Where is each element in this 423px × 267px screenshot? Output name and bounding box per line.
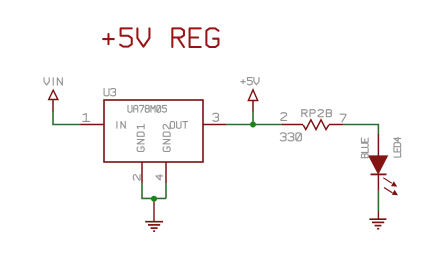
pin number 2 (resistor) [281, 113, 287, 121]
LED4 cathode pin [377, 174, 379, 190]
value label BLUE (rotated) [361, 138, 368, 158]
resistor RP2B pin 2 lead [282, 124, 303, 126]
value label 330 [280, 133, 301, 141]
net label +5V [241, 78, 259, 85]
supply symbol VIN [49, 90, 58, 99]
pin 1 of U3 (IN) [81, 124, 105, 126]
wire LED to ground [377, 190, 379, 211]
wire pin4 to junction [165, 183, 167, 198]
pin number 3 [213, 113, 219, 121]
value label UA78M05 [128, 105, 166, 112]
resistor RP2B zigzag [303, 120, 329, 130]
ground symbol GND (right) bars [369, 219, 386, 229]
wire junction to +5V supply [252, 111, 254, 125]
pin 2 of U3 (GND1) [141, 162, 143, 183]
IC U3 body [104, 100, 203, 162]
LED4 anode pin [377, 134, 379, 157]
pin name GND1 (rotated) [137, 125, 144, 152]
junction dot (GND net) [151, 196, 157, 202]
wire OUT to resistor [226, 124, 282, 126]
supply symbol +5V [248, 90, 257, 101]
pin number 1 [83, 114, 90, 122]
ref label U3 [104, 89, 115, 96]
pin name IN [117, 122, 125, 129]
wire resistor to LED [343, 125, 378, 135]
LED4 triangle [369, 156, 387, 174]
LED4 cathode bar [371, 173, 387, 175]
title text +5V REG [103, 28, 218, 47]
ground symbol GND (left) bars [145, 222, 163, 231]
pin 3 of U3 (OUT) [203, 124, 226, 126]
ground symbol GND (left) pin [153, 198, 155, 221]
wire VIN to pin1 [53, 111, 81, 125]
resistor RP2B pin 7 lead [329, 124, 343, 126]
net label VIN [44, 78, 62, 85]
wire pin2 to junction [142, 183, 166, 198]
pin number 2 (rotated) [133, 175, 140, 180]
junction dot (+5V net) [250, 122, 256, 128]
ground symbol GND (right) pin [377, 211, 379, 219]
LED4 light arrow 1 [383, 178, 392, 183]
ref label RP2B [302, 110, 332, 117]
pin name OUT [170, 122, 187, 129]
pin 4 of U3 (GND2) [165, 162, 167, 183]
pin number 4 (rotated) [156, 175, 163, 181]
LED4 light arrow 2 [384, 188, 393, 193]
pin number 7 [340, 114, 346, 122]
ref label LED4 (rotated) [394, 137, 401, 157]
pin name GND2 (rotated) [163, 125, 170, 152]
